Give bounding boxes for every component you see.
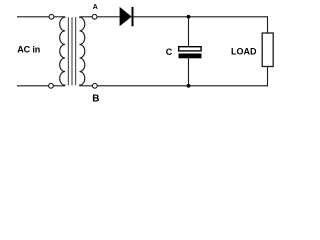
- diode D1 cathode bar: [132, 7, 134, 26]
- bottom rail wire: [97, 85, 268, 87]
- junction dot bottom: [187, 84, 191, 88]
- label AC in: [17, 44, 40, 54]
- wire secondary top to terminal A: [80, 16, 93, 18]
- wire A to diode anode: [97, 16, 119, 18]
- wire terminal to transformer primary: [54, 16, 65, 18]
- wire terminal to transformer primary bottom: [53, 85, 65, 87]
- diode D1 triangle: [120, 7, 132, 26]
- label A: [93, 4, 98, 11]
- node B terminal: [92, 83, 97, 88]
- wire top-left from AC source to terminal: [17, 16, 49, 18]
- wire top-right corner down to load: [267, 16, 269, 33]
- wire secondary bottom to terminal B: [80, 85, 93, 87]
- transformer T1 primary winding: [60, 17, 65, 86]
- capacitor C bottom plate: [179, 54, 202, 59]
- label C: [166, 47, 173, 57]
- svg-text:LOAD: LOAD: [231, 47, 257, 57]
- wire junction down to capacitor C: [188, 17, 190, 47]
- svg-text:C: C: [166, 47, 173, 57]
- wire load bottom to bottom rail: [267, 67, 269, 87]
- capacitor C top plate: [179, 47, 201, 51]
- svg-text:AC in: AC in: [17, 44, 40, 54]
- load resistor box: [262, 33, 273, 67]
- label B: [92, 94, 99, 105]
- node: top-left input terminal: [49, 14, 54, 19]
- wire diode to top-right corner: [134, 16, 268, 18]
- transformer T1 core: [67, 17, 69, 85]
- transformer T1 secondary winding: [80, 17, 85, 86]
- wire bottom-left from AC source to terminal: [17, 85, 49, 87]
- label LOAD: [231, 47, 257, 57]
- junction dot top at capacitor: [187, 15, 191, 19]
- wire capacitor to bottom rail: [188, 58, 190, 86]
- svg-text:B: B: [92, 94, 99, 105]
- node A terminal: [92, 14, 97, 19]
- node: bottom-left input terminal: [49, 83, 54, 88]
- svg-text:A: A: [93, 4, 98, 11]
